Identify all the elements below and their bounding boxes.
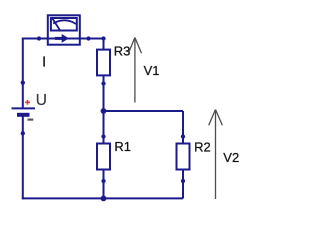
voltage arrow V1 xyxy=(128,38,141,103)
ammeter pin right xyxy=(86,36,90,40)
svg-text:R1: R1 xyxy=(114,139,131,154)
resistor R3 pin top xyxy=(101,36,105,40)
ammeter pin left xyxy=(37,36,41,40)
wire: R3 branch vertical (top rail down through R3 to middle node) xyxy=(103,39,105,112)
wire: middle rail from node A to R2 branch xyxy=(104,110,184,112)
ammeter scale arc xyxy=(53,20,76,24)
wire: R1 branch vertical xyxy=(103,111,105,198)
resistor R3 pin bottom xyxy=(101,81,105,85)
battery pin bottom xyxy=(21,131,25,135)
wire: left vertical from battery - down to bottom rail xyxy=(22,115,24,200)
svg-text:U: U xyxy=(36,92,47,109)
svg-text:V2: V2 xyxy=(223,150,239,165)
wire: bottom rail xyxy=(22,197,183,199)
wire: top rail from corner to R3 corner xyxy=(22,38,104,40)
ammeter U1 outer box xyxy=(48,15,80,44)
wire: R2 branch vertical xyxy=(182,111,184,198)
battery plus sign xyxy=(25,100,30,105)
svg-text:I: I xyxy=(42,55,46,71)
resistor R1 pin top xyxy=(101,134,105,138)
resistor R2 pin top xyxy=(181,134,185,138)
resistor R1 pin bottom xyxy=(101,179,105,183)
svg-text:R2: R2 xyxy=(194,140,211,155)
voltage arrow V2 xyxy=(209,110,223,200)
wire: top-left vertical (battery + to top rail) xyxy=(22,39,24,109)
battery pin top xyxy=(21,81,25,85)
battery minus sign xyxy=(28,119,34,121)
ammeter needle xyxy=(53,19,61,31)
ammeter current direction arrow xyxy=(55,34,69,43)
battery U symbol plates xyxy=(12,108,36,114)
resistor R2 pin bottom xyxy=(181,179,185,183)
resistor R1 body xyxy=(97,144,110,170)
resistor R2 body xyxy=(177,144,190,170)
node B junction (bottom) xyxy=(101,196,107,202)
svg-text:V1: V1 xyxy=(144,63,160,78)
node A junction (middle) xyxy=(101,108,107,114)
ammeter inner display box xyxy=(51,18,77,31)
resistor R3 body xyxy=(97,50,110,76)
svg-text:R3: R3 xyxy=(114,44,131,59)
